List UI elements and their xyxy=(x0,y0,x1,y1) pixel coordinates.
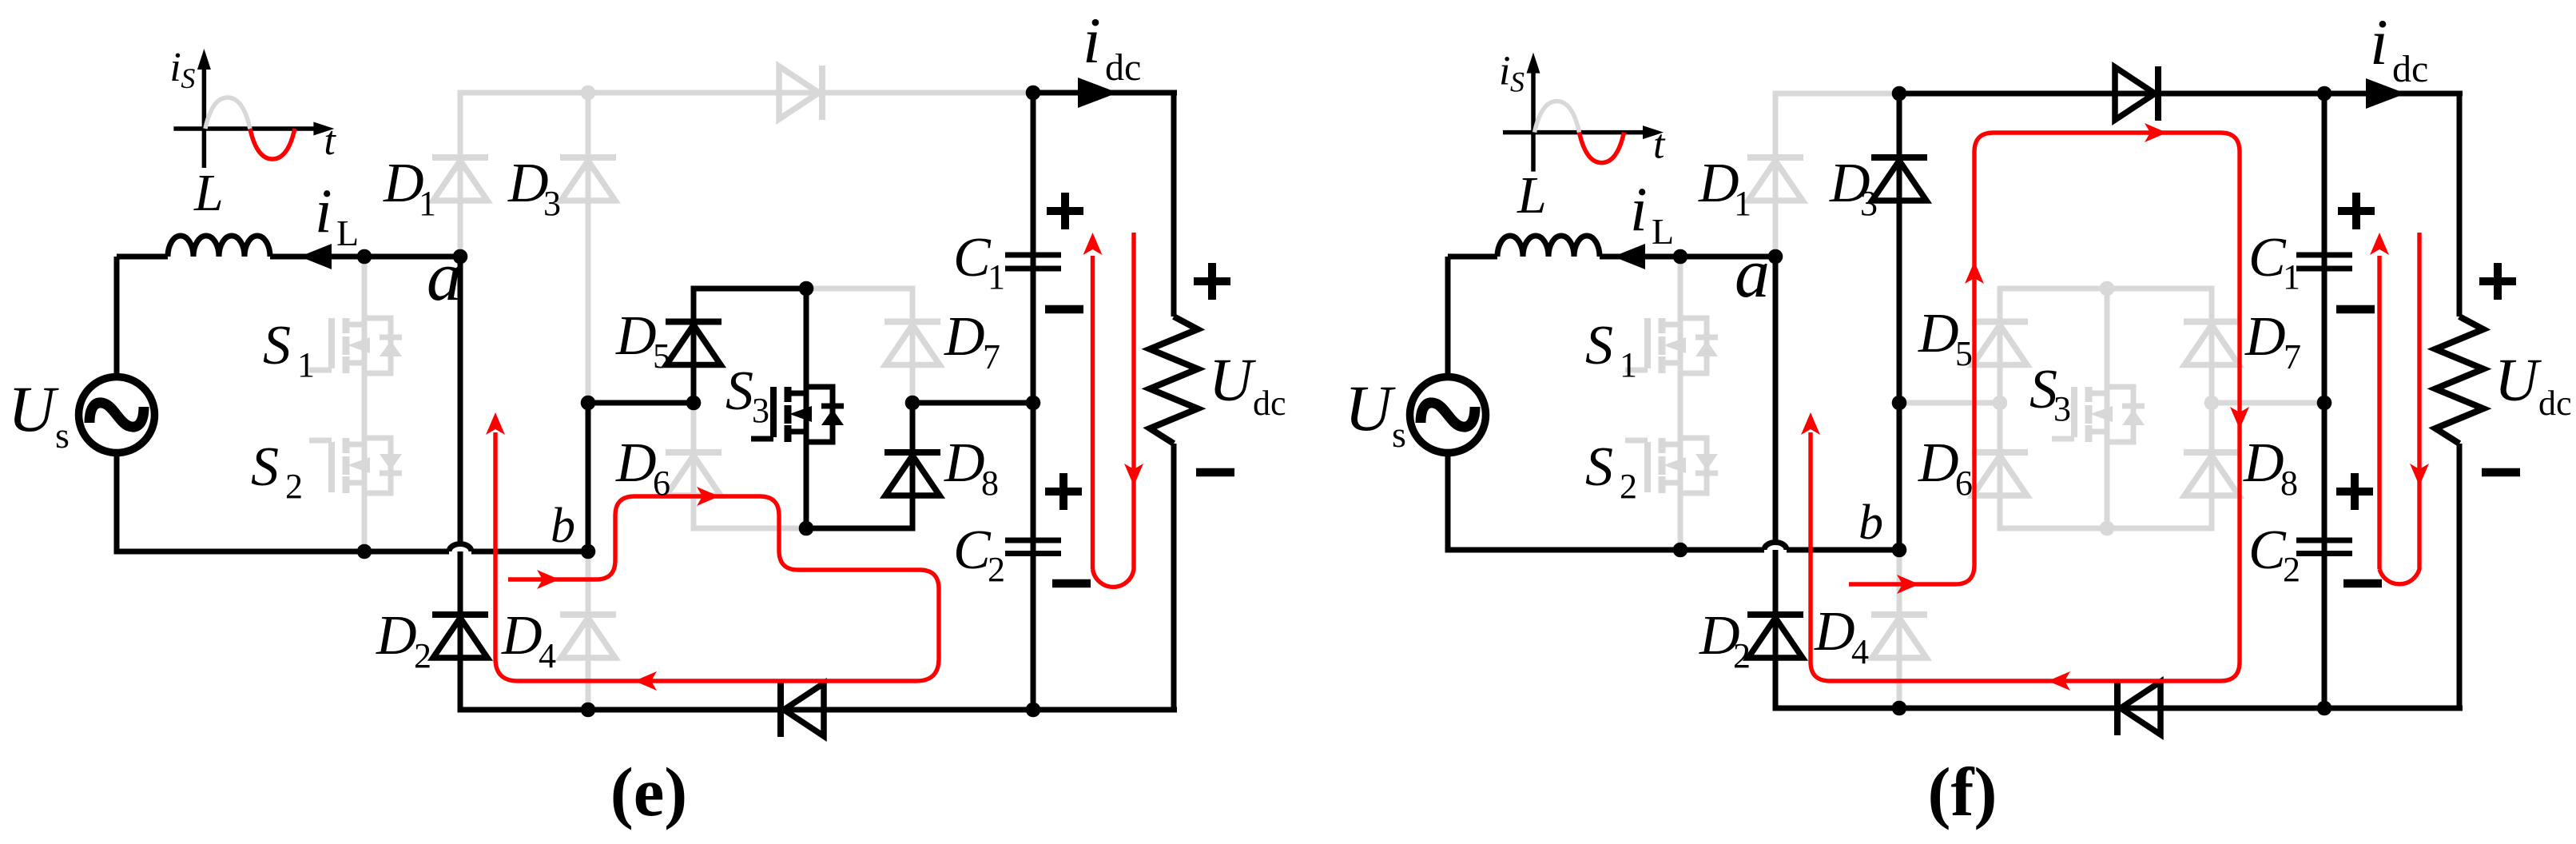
svg-text:S: S xyxy=(1585,315,1613,376)
node S1 drain junction (e) xyxy=(357,249,372,265)
wire D7 D8 junction to capacitor midpoint (f) xyxy=(2212,400,2324,406)
node S1 label (e) xyxy=(263,315,315,384)
diode D6 (f) xyxy=(1972,452,2028,496)
node C1 plus (f) xyxy=(2338,193,2375,229)
node U_dc label (f) xyxy=(2495,347,2572,423)
node b label (e) xyxy=(551,499,575,553)
node C2 label (f) xyxy=(2248,520,2300,589)
svg-text:b: b xyxy=(1858,496,1883,550)
node red capacitor arrow up (e) xyxy=(1083,233,1103,255)
diode bottom freewheel (f) xyxy=(2117,681,2161,735)
node C2 minus (e) xyxy=(1052,579,1091,588)
svg-text:1: 1 xyxy=(1620,345,1637,384)
node D7 D8 junction (e) xyxy=(905,396,920,411)
wire node b to node m (e) xyxy=(586,403,591,551)
svg-text:4: 4 xyxy=(1851,632,1869,671)
svg-text:U: U xyxy=(8,372,59,445)
wire D3 branch (e) xyxy=(586,93,591,403)
wire D7 branch (f) xyxy=(2209,289,2215,403)
wire D7 D8 junction to capacitor midpoint (e) xyxy=(912,400,1033,406)
svg-text:C: C xyxy=(953,520,992,581)
svg-text:i: i xyxy=(1083,4,1101,77)
svg-text:a: a xyxy=(427,238,462,316)
node C2 plus (f) xyxy=(2336,473,2373,510)
node a label (e) xyxy=(427,238,462,316)
svg-text:2: 2 xyxy=(414,636,431,675)
svg-text:D: D xyxy=(507,153,549,214)
svg-text:D: D xyxy=(1918,432,1959,494)
svg-text:D: D xyxy=(1918,303,1959,364)
node i_dc arrow (e) xyxy=(1078,78,1118,108)
svg-text:dc: dc xyxy=(1105,46,1141,89)
node D5 D6 junction (f) xyxy=(1993,396,2008,411)
wire red current loop (e) xyxy=(495,432,939,681)
svg-text:3: 3 xyxy=(1860,184,1878,223)
node S3 drain rail junction (f) xyxy=(2100,281,2115,297)
wire D8 branch (e) xyxy=(910,403,916,528)
node C2 minus (f) xyxy=(2343,579,2382,588)
svg-text:(f): (f) xyxy=(1928,753,1998,830)
wire top rail D5 to S3 (f) xyxy=(1998,286,2108,292)
svg-text:D: D xyxy=(2244,306,2286,368)
svg-text:U: U xyxy=(2495,347,2542,414)
wire red capacitor current up (f) xyxy=(2377,256,2381,569)
node capacitor midpoint (f) xyxy=(2317,396,2332,411)
wire a branch through D2 (f) xyxy=(1773,257,1779,708)
svg-text:3: 3 xyxy=(752,391,769,430)
node red arrowhead l (e) xyxy=(634,671,657,691)
node D5 label (f) xyxy=(1918,303,1973,373)
wire capacitor branch (e) xyxy=(1031,93,1036,710)
wire bottom rail D6 to S3 (f) xyxy=(1998,526,2108,531)
node i_dc label (e) xyxy=(1083,4,1141,89)
svg-text:D: D xyxy=(376,605,417,667)
node U_dc plus (e) xyxy=(1194,263,1230,300)
diode D5 (e) xyxy=(666,322,722,365)
node C1 label (e) xyxy=(953,227,1005,297)
node D4 label (f) xyxy=(1814,601,1869,671)
diode D7 (e) xyxy=(885,322,940,365)
node C2 label (e) xyxy=(953,520,1005,589)
source U_s (e) xyxy=(79,377,155,453)
wire source lower lead (f) xyxy=(1445,452,1451,553)
node S3 source rail junction (f) xyxy=(2100,521,2115,536)
svg-text:D: D xyxy=(944,432,985,494)
node capacitor bottom junction (f) xyxy=(2317,701,2332,716)
wire i_S sine positive half (f) xyxy=(1535,102,1580,133)
node capacitor top junction (e) xyxy=(1026,86,1041,101)
node D3 label (e) xyxy=(507,153,561,223)
svg-text:2: 2 xyxy=(285,467,303,506)
wire a branch through D2 (e) xyxy=(458,257,463,710)
svg-text:U: U xyxy=(1209,347,1256,414)
inductor L (f) xyxy=(1497,236,1600,257)
svg-text:D: D xyxy=(1814,601,1855,663)
wire source to node b with hop (f) xyxy=(1445,543,1900,551)
svg-text:i: i xyxy=(1499,49,1510,94)
node i_S axis horizontal (f) xyxy=(1503,125,1664,139)
wire red capacitor current up (e) xyxy=(1091,256,1095,569)
node D8 label (f) xyxy=(2243,432,2298,503)
wire bottom rail D6 to S3 (e) xyxy=(691,526,807,531)
svg-text:3: 3 xyxy=(543,184,561,223)
wire top rail first segment (f) xyxy=(1773,91,1900,97)
svg-text:S: S xyxy=(1510,66,1525,98)
node D8 label (e) xyxy=(944,432,999,503)
diode D2 (f) xyxy=(1747,615,1803,658)
node t label (f) xyxy=(1653,122,1666,168)
node i_S label (f) xyxy=(1499,49,1525,98)
node D6 label (f) xyxy=(1918,432,1973,503)
diode D1 (e) xyxy=(432,157,488,201)
node a label (f) xyxy=(1735,235,1770,313)
svg-text:1: 1 xyxy=(419,184,436,223)
node b (e) xyxy=(581,544,596,559)
resistor U_dc (e) xyxy=(1150,316,1198,444)
svg-text:a: a xyxy=(1735,235,1770,313)
svg-text:U: U xyxy=(1345,372,1396,444)
svg-text:i: i xyxy=(315,176,332,245)
svg-text:D: D xyxy=(615,432,657,494)
node D3 top junction (e) xyxy=(581,86,596,101)
inductor L (e) xyxy=(168,236,270,257)
node red arrowhead u (f) xyxy=(1801,412,1820,435)
node S2 label (f) xyxy=(1585,436,1637,506)
capacitor C1 (f) xyxy=(2296,255,2352,269)
node U_s label (f) xyxy=(1345,372,1406,455)
diode D6 (e) xyxy=(666,452,722,496)
diode D8 (f) xyxy=(2184,452,2240,496)
transistor S3 (e) xyxy=(751,387,844,442)
diode bottom freewheel (e) xyxy=(781,683,824,737)
node D5 D6 junction (e) xyxy=(686,396,702,411)
svg-text:dc: dc xyxy=(1253,384,1286,423)
node U_dc plus (f) xyxy=(2479,263,2516,300)
node i_L arrow (e) xyxy=(300,244,332,269)
svg-text:s: s xyxy=(1392,414,1406,455)
node C1 minus (e) xyxy=(1045,305,1083,314)
svg-text:S: S xyxy=(181,62,195,94)
node i_S axis vertical (f) xyxy=(1527,53,1540,172)
svg-text:7: 7 xyxy=(983,337,1000,376)
svg-text:2: 2 xyxy=(2283,550,2300,589)
svg-text:L: L xyxy=(336,213,359,253)
wire node m to D5 D6 junction (e) xyxy=(588,400,694,406)
svg-text:dc: dc xyxy=(2392,48,2428,90)
svg-text:6: 6 xyxy=(653,464,670,503)
wire i_S sine negative half (f) xyxy=(1580,133,1624,163)
node red arrowhead u (e) xyxy=(486,412,505,435)
wire D7 branch (e) xyxy=(910,289,916,403)
node S2 source junction (e) xyxy=(357,544,372,559)
wire top rail black segment (e) xyxy=(1033,90,1177,96)
wire capacitor branch (f) xyxy=(2322,94,2328,708)
transistor S1 (e) xyxy=(309,318,402,373)
node S3 label (f) xyxy=(2029,359,2071,428)
node D7 label (e) xyxy=(944,306,1000,376)
diode D3 (e) xyxy=(560,157,616,201)
node i_S axis vertical (e) xyxy=(197,49,211,168)
wire right rail upper (f) xyxy=(2457,94,2463,316)
diode D2 (e) xyxy=(432,615,488,658)
node red arrowhead r (f) xyxy=(2145,123,2167,142)
node i_L label (f) xyxy=(1630,174,1674,252)
svg-text:1: 1 xyxy=(297,345,315,384)
capacitor C1 (e) xyxy=(1005,255,1061,269)
node D3 top junction (f) xyxy=(1892,86,1907,102)
wire source to inductor (e) xyxy=(117,254,168,260)
node S3 label (e) xyxy=(725,360,769,430)
diode top freewheel (e) xyxy=(779,66,822,120)
node t label (e) xyxy=(324,118,336,164)
node D1 label (f) xyxy=(1698,153,1751,223)
wire S1 S2 branch (e) xyxy=(362,257,368,551)
node red capacitor arrow down (f) xyxy=(2410,464,2429,486)
svg-text:8: 8 xyxy=(981,464,999,503)
wire S3 branch (f) xyxy=(2105,289,2110,528)
node i_L label (e) xyxy=(315,176,359,253)
svg-text:t: t xyxy=(324,118,336,164)
wire right rail upper (e) xyxy=(1171,93,1177,316)
svg-text:2: 2 xyxy=(1620,467,1637,506)
node a (f) xyxy=(1768,249,1783,265)
diode D8 (e) xyxy=(885,452,940,496)
svg-text:C: C xyxy=(2248,227,2287,289)
svg-text:D: D xyxy=(383,153,424,214)
svg-text:D: D xyxy=(1698,153,1739,214)
node D7 D8 junction (f) xyxy=(2204,396,2220,411)
wire D4 branch (e) xyxy=(586,551,591,710)
node panel label (f) xyxy=(1928,753,1998,830)
node D1 label (e) xyxy=(383,153,436,223)
wire red capacitor current down with U turn (f) xyxy=(2379,233,2419,584)
svg-text:2: 2 xyxy=(1733,636,1751,675)
svg-text:3: 3 xyxy=(2053,389,2071,428)
svg-text:t: t xyxy=(1653,122,1666,168)
transistor S1 (f) xyxy=(1625,318,1718,373)
svg-text:i: i xyxy=(1630,174,1648,244)
svg-text:5: 5 xyxy=(653,336,670,376)
node S1 drain junction (f) xyxy=(1673,249,1688,265)
wire source to inductor (f) xyxy=(1448,254,1497,260)
svg-text:8: 8 xyxy=(2280,464,2298,503)
wire source to node b with hop (e) xyxy=(114,544,589,552)
node i_S label (e) xyxy=(169,45,195,94)
node red capacitor arrow up (f) xyxy=(2370,233,2389,255)
node D7 label (f) xyxy=(2244,306,2301,376)
node red arrowhead d (f) xyxy=(2230,407,2249,429)
resistor U_dc (f) xyxy=(2435,316,2483,444)
node capacitor top junction (f) xyxy=(2317,86,2332,102)
node m D3 bottom junction (f) xyxy=(1892,396,1907,411)
diode D4 (e) xyxy=(560,615,616,658)
node D5 label (e) xyxy=(615,305,670,376)
node S2 source junction (f) xyxy=(1673,543,1688,558)
wire i_S sine negative half (e) xyxy=(250,129,295,159)
node C1 plus (e) xyxy=(1047,193,1083,229)
svg-text:L: L xyxy=(193,164,224,222)
node i_dc label (f) xyxy=(2370,6,2428,90)
wire top rail black segment (f) xyxy=(1899,91,2463,97)
capacitor C2 (e) xyxy=(1005,540,1061,554)
wire red current loop (f) xyxy=(1811,133,2240,681)
diode D4 (f) xyxy=(1871,615,1927,658)
node D4 label (e) xyxy=(501,605,556,675)
node S3 source rail junction (e) xyxy=(799,521,814,536)
wire bottom main rail (e) xyxy=(458,707,1178,713)
node capacitor bottom junction (e) xyxy=(1026,703,1041,718)
node panel label (e) xyxy=(610,753,688,830)
svg-text:S: S xyxy=(725,360,753,422)
diode D3 (f) xyxy=(1871,157,1927,201)
svg-text:S: S xyxy=(251,436,279,498)
node C2 plus (e) xyxy=(1045,473,1082,510)
wire bottom rail S3 to D8 (e) xyxy=(806,526,916,531)
svg-text:C: C xyxy=(953,227,992,289)
node m D3 bottom junction (e) xyxy=(581,396,596,411)
diode D1 (f) xyxy=(1747,157,1803,201)
node red arrowhead r (f) xyxy=(1897,575,1919,594)
wire source upper lead (f) xyxy=(1445,257,1451,377)
node i_dc arrow (f) xyxy=(2366,78,2406,109)
node S1 label (f) xyxy=(1585,315,1637,384)
svg-text:D: D xyxy=(501,605,543,667)
svg-text:1: 1 xyxy=(988,257,1005,297)
node S2 label (e) xyxy=(251,436,303,506)
node D3 label (f) xyxy=(1829,153,1878,223)
svg-text:D: D xyxy=(944,306,985,368)
node b label (f) xyxy=(1858,496,1883,550)
node S3 drain rail junction (e) xyxy=(799,281,814,297)
svg-text:4: 4 xyxy=(539,636,556,675)
transistor S3 (f) xyxy=(2052,387,2145,442)
wire source upper lead (e) xyxy=(114,257,120,377)
svg-text:2: 2 xyxy=(988,550,1005,589)
wire D1 branch (e) xyxy=(458,90,463,257)
wire i_S sine positive half (e) xyxy=(205,98,250,129)
diode D5 (f) xyxy=(1972,322,2028,365)
node D2 label (e) xyxy=(376,605,431,675)
node red arrowhead r (e) xyxy=(697,487,719,506)
wire node m to D5 D6 junction (f) xyxy=(1899,400,2000,406)
wire source lower lead (e) xyxy=(114,452,120,555)
wire D1 branch (f) xyxy=(1773,91,1779,257)
node i_S axis horizontal (e) xyxy=(173,122,334,136)
wire S3 branch (e) xyxy=(804,289,809,528)
svg-text:S: S xyxy=(263,315,291,376)
node red capacitor arrow down (e) xyxy=(1124,464,1143,486)
svg-text:b: b xyxy=(551,499,575,553)
wire D4 branch (f) xyxy=(1897,550,1902,708)
node D6 label (e) xyxy=(615,432,670,503)
wire right rail lower (e) xyxy=(1171,444,1177,710)
node a (e) xyxy=(453,249,468,265)
wire top rail D5 to S3 (e) xyxy=(691,286,807,292)
source U_s (f) xyxy=(1410,377,1486,453)
wire inductor to node a (f) xyxy=(1600,254,1775,260)
wire right rail lower (f) xyxy=(2457,444,2463,708)
node b (f) xyxy=(1892,543,1907,558)
node U_dc minus (e) xyxy=(1196,468,1234,477)
node red arrowhead r (e) xyxy=(537,570,559,589)
node U_dc minus (f) xyxy=(2482,468,2520,477)
transistor S2 (e) xyxy=(309,438,402,493)
wire bottom rail S3 to D8 (f) xyxy=(2107,526,2215,531)
svg-text:S: S xyxy=(1585,436,1613,498)
node red arrowhead l (f) xyxy=(2048,671,2070,691)
svg-text:1: 1 xyxy=(2283,257,2300,297)
wire D5 branch (f) xyxy=(1998,289,2003,403)
node D4 bottom junction (e) xyxy=(581,703,596,718)
capacitor C2 (f) xyxy=(2296,540,2352,554)
node D2 label (f) xyxy=(1699,605,1751,675)
node D4 bottom junction (f) xyxy=(1892,701,1907,716)
svg-text:i: i xyxy=(2370,6,2388,78)
wire red capacitor current down with U turn (e) xyxy=(1093,233,1135,587)
svg-text:dc: dc xyxy=(2538,384,2572,423)
node C1 label (f) xyxy=(2248,227,2300,297)
wire top rail S3 to D7 (f) xyxy=(2107,286,2215,292)
diode D7 (f) xyxy=(2184,322,2240,365)
transistor S2 (f) xyxy=(1625,438,1718,493)
wire D6 branch (f) xyxy=(1998,403,2003,528)
svg-text:5: 5 xyxy=(1955,334,1973,373)
node C1 minus (f) xyxy=(2336,305,2375,314)
node U_dc label (e) xyxy=(1209,347,1286,423)
diode top freewheel (f) xyxy=(2115,66,2158,121)
svg-text:D: D xyxy=(2243,432,2284,494)
node i_L arrow (f) xyxy=(1613,244,1645,269)
wire D6 branch (e) xyxy=(691,403,697,528)
svg-text:(e): (e) xyxy=(610,753,688,830)
node capacitor midpoint (e) xyxy=(1026,396,1041,411)
wire D5 branch (e) xyxy=(691,289,697,403)
svg-text:C: C xyxy=(2248,520,2287,581)
wire top rail first segment (e) xyxy=(458,90,1034,96)
svg-text:6: 6 xyxy=(1955,464,1973,503)
wire inductor to node a (e) xyxy=(270,254,460,260)
svg-text:s: s xyxy=(55,415,70,456)
wire D3 branch (f) xyxy=(1897,94,1902,403)
wire top rail S3 to D7 (e) xyxy=(806,286,916,292)
svg-text:1: 1 xyxy=(1734,184,1751,223)
wire D8 branch (f) xyxy=(2209,403,2215,528)
wire bottom main rail (f) xyxy=(1773,706,2463,711)
svg-text:i: i xyxy=(169,45,181,90)
svg-text:L: L xyxy=(1517,166,1547,225)
svg-text:7: 7 xyxy=(2284,337,2301,376)
node U_s label (e) xyxy=(8,372,70,456)
node L label (f) xyxy=(1517,166,1547,225)
wire node b to node m (f) xyxy=(1897,403,1902,550)
svg-text:L: L xyxy=(1652,211,1674,252)
node L label (e) xyxy=(193,164,224,222)
node red arrowhead u (f) xyxy=(1965,261,1984,284)
wire S1 S2 branch (f) xyxy=(1678,257,1684,550)
svg-text:D: D xyxy=(615,305,657,367)
